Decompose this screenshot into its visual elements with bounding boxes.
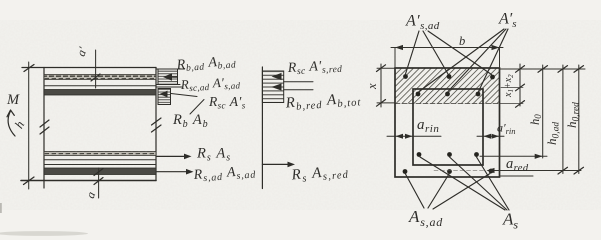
h0 dimension line [542, 65, 544, 158]
a' dimension line [95, 50, 97, 88]
b dimension line [391, 47, 503, 49]
svg-text:b: b [459, 34, 465, 48]
reduced compression stress block [262, 71, 283, 103]
interface line 2 [44, 164, 156, 166]
h0,ad dimension line [562, 65, 564, 174]
svg-text:Rsc A′s: Rsc A′s [208, 94, 246, 111]
a_red dashed continuation inside section [434, 170, 486, 172]
svg-text:x: x [365, 83, 379, 90]
a tick top [94, 169, 103, 176]
scan smudge bottom-left [0, 231, 88, 236]
leaders from A_s to original tension dots [420, 157, 505, 210]
leaders from A's to original compression steel dots [419, 29, 504, 92]
beam top edge [22, 67, 156, 69]
x1+x2 dimension line [519, 64, 521, 106]
arrow in stress block 1 [163, 73, 172, 81]
added top reinforcement strip A_b,ad [44, 75, 156, 80]
leader line to R_sc,ad label [156, 86, 182, 88]
x1+x2 bottom extension line [500, 103, 524, 105]
break mark on right edge [152, 118, 162, 125]
tension force arrow R_s A_s [157, 155, 186, 157]
a' tick [91, 74, 100, 81]
x dim extension lines [377, 67, 395, 69]
svg-text:M: M [6, 92, 20, 108]
beam right edge [155, 68, 157, 181]
paper grain [0, 20, 601, 210]
rebar dots: added tension steel row [403, 169, 408, 174]
h0,red dimension line [578, 65, 580, 174]
rebar dots: added compression steel row [403, 74, 408, 79]
compression zone bottom boundary [395, 103, 500, 105]
beam bottom edge [21, 180, 156, 182]
leader from R_b A_b label [190, 100, 204, 115]
break mark on left edge [40, 120, 49, 127]
b extension lines [394, 48, 396, 68]
bottom edge extension [500, 175, 534, 177]
height dimension line h [28, 62, 30, 189]
added tension steel strip A_s,ad [44, 168, 156, 175]
a'_rin dimension [477, 135, 504, 137]
tick bottom of h dimension [24, 177, 35, 185]
bottom tension arrow [262, 163, 289, 165]
original tension steel strip A_s [44, 152, 156, 156]
rebar dots: original compression steel row [416, 92, 421, 97]
lower arrow in block [272, 83, 282, 90]
a_red line with left arrow [488, 170, 581, 172]
upper arrow in block [272, 73, 282, 80]
interface line [44, 159, 156, 161]
rebar dots: original tension steel row [417, 152, 422, 157]
compression zone hatch [395, 68, 500, 104]
arrow in stress block 2 [160, 91, 168, 98]
stress block 2: original compression zone [158, 89, 171, 105]
leader from block2 to R_sc A's label [171, 94, 197, 97]
x1+x2 mid extension line [501, 87, 523, 89]
inner (original) section rectangle [413, 89, 483, 165]
beam left edge [43, 68, 45, 189]
outer section rectangle [395, 68, 500, 177]
leader to R_b,red label [284, 89, 313, 91]
stress block 1: added concrete R_b,ad [158, 69, 178, 85]
block1 top edge extension [156, 68, 185, 70]
a tick bottom [94, 178, 103, 185]
tension force arrow R_s,ad A_s,ad [157, 171, 188, 173]
block1 bottom edge extension [156, 84, 180, 86]
moment arrow arc [8, 111, 15, 136]
x dim ticks [377, 65, 386, 72]
top extension line for right-side dims [500, 68, 586, 70]
original compression steel strip A's [44, 90, 156, 96]
tick top of h dimension [24, 65, 34, 72]
leaders from A_s,ad to added tension dots [406, 174, 425, 208]
leaders from A's,ad to added steel dots [406, 31, 420, 74]
vertical reference line [261, 67, 263, 189]
a_rin dimension [387, 135, 441, 137]
scan mark left edge [0, 203, 2, 213]
leader to R_sc label [284, 81, 313, 83]
h0 bottom extension from original tension steel [480, 155, 547, 157]
a dimension line [98, 168, 100, 198]
svg-text:Rs As: Rs As [196, 146, 231, 164]
interface line below added layer [44, 85, 156, 87]
x dimension line [380, 64, 382, 107]
